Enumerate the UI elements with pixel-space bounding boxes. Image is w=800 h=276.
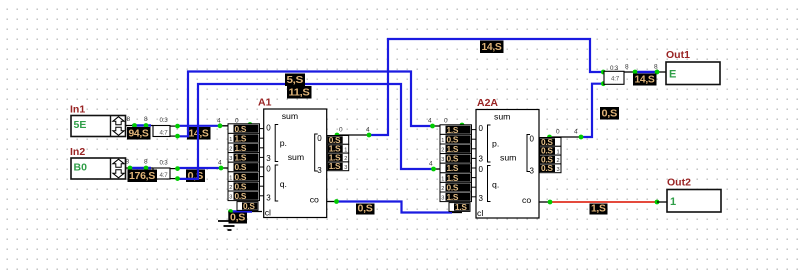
svg-text:1: 1 xyxy=(344,147,347,153)
svg-text:0:3: 0:3 xyxy=(160,160,169,167)
svg-text:1.S: 1.S xyxy=(447,163,459,173)
svg-text:14,S: 14,S xyxy=(635,75,656,86)
svg-text:1: 1 xyxy=(229,137,232,143)
svg-text:cl: cl xyxy=(477,208,483,218)
svg-text:In1: In1 xyxy=(70,104,85,116)
svg-text:94,S: 94,S xyxy=(129,129,150,140)
svg-text:4: 4 xyxy=(366,127,370,134)
svg-text:1,S: 1,S xyxy=(591,204,606,215)
probe 14,S on A1 sum bus xyxy=(480,41,504,54)
probe 5,S on net5 xyxy=(285,74,305,87)
svg-text:1: 1 xyxy=(229,175,232,181)
svg-text:cl: cl xyxy=(265,208,271,218)
svg-text:A2A: A2A xyxy=(477,97,498,109)
svg-text:1: 1 xyxy=(441,138,444,144)
svg-text:4: 4 xyxy=(429,161,433,168)
svg-text:0.S: 0.S xyxy=(243,201,255,211)
svg-text:0: 0 xyxy=(317,134,322,143)
svg-text:1.S: 1.S xyxy=(235,153,247,163)
svg-text:E: E xyxy=(669,69,676,81)
input In2 value B0 xyxy=(70,146,126,179)
output Out1 value E xyxy=(666,49,720,85)
svg-text:1.S: 1.S xyxy=(329,161,341,171)
svg-text:0,S: 0,S xyxy=(230,213,246,224)
probe 0,S on net0 (In2 low nibble) xyxy=(186,170,205,183)
svg-text:11,S: 11,S xyxy=(289,88,311,99)
svg-text:2: 2 xyxy=(441,186,444,192)
svg-text:3: 3 xyxy=(441,196,444,202)
svg-text:0.S: 0.S xyxy=(541,163,553,173)
svg-text:Out2: Out2 xyxy=(667,177,691,189)
svg-text:0.S: 0.S xyxy=(235,162,247,172)
svg-text:8: 8 xyxy=(127,116,131,123)
wire A2A co to Out2 (red, value 1) xyxy=(539,200,667,205)
wire A1 sum to Out1 merger input 0:3 xyxy=(335,39,606,137)
svg-text:3: 3 xyxy=(479,155,484,164)
svg-text:sum: sum xyxy=(494,112,510,122)
svg-text:0.S: 0.S xyxy=(447,154,459,164)
svg-text:2: 2 xyxy=(344,156,347,162)
svg-text:3: 3 xyxy=(229,156,232,162)
svg-text:0:3: 0:3 xyxy=(160,117,169,124)
svg-text:1: 1 xyxy=(557,149,560,155)
A1 ci bit tap xyxy=(237,201,258,211)
adder A2A (high nibble) xyxy=(476,97,539,218)
wire A1 co to A2A ci xyxy=(327,199,463,212)
svg-text:1.S: 1.S xyxy=(235,143,247,153)
merger Out1 nibbles to 8-bit xyxy=(604,65,624,85)
svg-text:0:3: 0:3 xyxy=(610,65,619,72)
wire A2A sum to Out1 merger input 4:7 xyxy=(547,81,606,139)
svg-text:4:7: 4:7 xyxy=(160,172,169,179)
svg-text:0.S: 0.S xyxy=(235,172,247,182)
svg-text:0.S: 0.S xyxy=(235,124,247,134)
A1 p input bit taps (value 14) xyxy=(228,124,264,163)
probe 0,S on A2A sum bus xyxy=(600,107,619,120)
ground symbol xyxy=(218,212,240,231)
svg-text:2: 2 xyxy=(441,148,444,154)
svg-text:1: 1 xyxy=(441,176,444,182)
svg-text:0: 0 xyxy=(556,129,560,136)
svg-text:3: 3 xyxy=(229,195,232,201)
svg-text:3: 3 xyxy=(479,194,484,203)
A2A p input bit taps (value 5) xyxy=(440,125,476,164)
svg-text:0.S: 0.S xyxy=(447,182,459,192)
svg-text:1: 1 xyxy=(670,196,676,208)
svg-text:0,S: 0,S xyxy=(602,109,618,120)
svg-text:3: 3 xyxy=(317,166,322,175)
svg-text:1.S: 1.S xyxy=(447,144,459,154)
svg-text:5,S: 5,S xyxy=(287,75,304,86)
svg-text:4: 4 xyxy=(218,160,222,167)
svg-text:8: 8 xyxy=(625,64,629,71)
svg-text:8: 8 xyxy=(144,116,148,123)
svg-text:0.S: 0.S xyxy=(235,191,247,201)
svg-text:0,S: 0,S xyxy=(188,171,204,182)
svg-text:B0: B0 xyxy=(74,162,88,174)
probe 1,S on A2A co wire xyxy=(590,204,608,215)
svg-text:co: co xyxy=(310,195,319,205)
svg-text:0: 0 xyxy=(444,118,448,125)
svg-text:3: 3 xyxy=(266,194,271,203)
svg-text:4:7: 4:7 xyxy=(611,75,620,82)
svg-text:A1: A1 xyxy=(258,97,272,109)
svg-text:0.S: 0.S xyxy=(447,134,459,144)
probe 14,S on Out1 bus xyxy=(633,74,657,86)
probe 0,S on A1 co wire xyxy=(356,204,375,215)
probe 0,S on ci ground wire xyxy=(229,213,248,224)
svg-text:0: 0 xyxy=(266,165,271,174)
splitter In1 8-bit to nibbles xyxy=(153,117,180,139)
svg-text:4: 4 xyxy=(428,118,432,125)
A2A sum output bit taps (value 0) xyxy=(540,137,562,173)
svg-text:176,S: 176,S xyxy=(129,171,156,182)
wire In1 output 8-bit bus xyxy=(126,116,154,126)
svg-text:1.S: 1.S xyxy=(447,125,459,135)
svg-text:5E: 5E xyxy=(74,119,87,131)
svg-text:Out1: Out1 xyxy=(666,49,690,61)
svg-text:p.: p. xyxy=(280,138,287,148)
svg-text:14,S: 14,S xyxy=(482,42,503,53)
svg-text:4: 4 xyxy=(217,118,221,125)
svg-text:1.S: 1.S xyxy=(447,192,459,202)
output Out2 value 1 xyxy=(667,177,721,213)
probe blue overlay on In1 bus xyxy=(132,123,151,128)
svg-text:2: 2 xyxy=(229,147,232,153)
svg-text:2: 2 xyxy=(229,185,232,191)
svg-text:3: 3 xyxy=(530,167,535,176)
svg-text:8: 8 xyxy=(654,64,658,71)
svg-text:0.S: 0.S xyxy=(235,181,247,191)
splitter In2 8-bit to nibbles xyxy=(153,160,180,182)
input In1 value 5E xyxy=(70,104,126,137)
A2A q input bit taps (value 11) xyxy=(440,163,476,202)
svg-text:1.S: 1.S xyxy=(447,173,459,183)
wire net14: In1[0:3] to A1 p xyxy=(178,118,253,129)
wire Out1 merger output to Out1 xyxy=(624,64,666,75)
svg-text:0,S: 0,S xyxy=(358,204,374,215)
svg-text:1.S: 1.S xyxy=(455,202,467,212)
svg-text:4: 4 xyxy=(574,129,578,136)
adder A1 (low nibble) xyxy=(258,97,327,218)
svg-text:8: 8 xyxy=(144,159,148,166)
probe 94,S on In1 bus xyxy=(127,127,151,140)
probe 14,S on net14 xyxy=(187,127,211,140)
probe 176,S on In2 bus xyxy=(128,170,158,183)
probe blue overlay on In2 bus xyxy=(128,166,151,171)
svg-text:4:7: 4:7 xyxy=(160,130,169,137)
wire net11: In2[4:7] to A2A q xyxy=(178,84,449,179)
svg-text:2: 2 xyxy=(557,158,560,164)
wire net0: In2[0:3] to A1 q xyxy=(178,160,239,171)
svg-text:q.: q. xyxy=(280,179,287,189)
svg-text:q.: q. xyxy=(492,180,499,190)
wire ground to A1 ci xyxy=(228,209,262,214)
svg-text:0: 0 xyxy=(339,127,343,134)
svg-text:p.: p. xyxy=(492,139,499,149)
wire In2 output 8-bit bus xyxy=(126,159,154,169)
svg-text:sum: sum xyxy=(500,153,516,163)
svg-text:0: 0 xyxy=(530,135,535,144)
svg-text:sum: sum xyxy=(282,111,298,121)
svg-text:sum: sum xyxy=(288,152,304,162)
A2A ci bit tap xyxy=(449,202,470,212)
svg-text:0: 0 xyxy=(479,165,484,174)
A1 sum output bit taps (value 14) xyxy=(327,135,349,171)
svg-text:3: 3 xyxy=(557,167,560,173)
svg-text:0: 0 xyxy=(479,124,484,133)
svg-text:co: co xyxy=(522,195,531,205)
svg-text:3: 3 xyxy=(266,154,271,163)
probe 11,S on net11 xyxy=(287,86,312,99)
svg-text:1.S: 1.S xyxy=(235,133,247,143)
svg-text:3: 3 xyxy=(441,157,444,163)
A1 q input bit taps (value 0) xyxy=(228,162,264,201)
svg-text:0: 0 xyxy=(266,124,271,133)
svg-text:3: 3 xyxy=(344,165,347,171)
svg-text:In2: In2 xyxy=(70,146,85,158)
wire net5: In1[4:7] to A2A p xyxy=(178,72,465,137)
